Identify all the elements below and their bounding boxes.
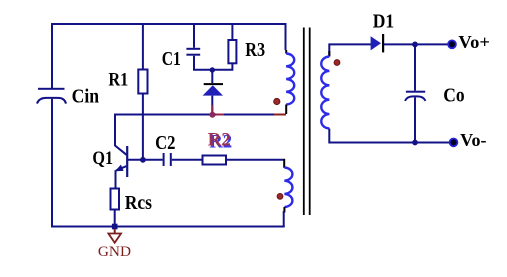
resistor R2 (203, 156, 227, 165)
diode clamp triangle (203, 85, 223, 95)
capacitor C1 (186, 48, 200, 56)
wire Co bottom lead (414, 97, 416, 142)
svg-text:Co: Co (443, 85, 464, 106)
wire base lead (128, 159, 163, 161)
wire collector drop (115, 114, 127, 155)
svg-text:Rcs: Rcs (125, 193, 153, 214)
wire R1 top lead (142, 23, 144, 69)
svg-text:R1: R1 (108, 70, 128, 91)
wire emitter lead (115, 170, 117, 187)
wire aux top stub (283, 159, 285, 168)
node Co top junction (412, 42, 418, 48)
inductor secondary winding (321, 57, 329, 129)
wire R1 bottom lead to base node (142, 95, 144, 161)
ground (108, 229, 121, 243)
wire R2 to aux winding (226, 159, 284, 161)
wire junction to diode (211, 70, 213, 83)
wire secondary top lead (329, 44, 371, 56)
diode D1 triangle (371, 36, 381, 50)
svg-text:GND: GND (98, 244, 131, 260)
wire primary bottom stub (285, 105, 287, 115)
capacitor Cin (37, 88, 66, 104)
wire Co top lead (414, 44, 416, 90)
wire aux bottom stub (283, 207, 285, 212)
node clamp junction (210, 67, 215, 72)
inductor primary winding (286, 54, 294, 105)
wire C2 to R2 (172, 159, 202, 161)
wire Cin bottom lead (51, 99, 53, 227)
resistor R1 (138, 70, 147, 94)
svg-text:C2: C2 (155, 132, 175, 154)
svg-text:R3: R3 (245, 40, 265, 61)
svg-text:Vo+: Vo+ (458, 32, 490, 52)
wire C1 bottom to junction (194, 56, 212, 70)
wire C1 top lead (193, 23, 195, 48)
svg-text:D1: D1 (373, 10, 394, 32)
wire Rcs bottom lead (114, 211, 116, 227)
svg-text:Q1: Q1 (92, 148, 113, 169)
wire left rail (51, 23, 53, 88)
capacitor Co (405, 91, 426, 101)
wire diode anode lead red part (211, 105, 213, 112)
wire R3 top lead (231, 23, 233, 39)
label R2 (208, 130, 232, 153)
terminal Vo+ (448, 40, 456, 48)
wire bottom rail (51, 226, 285, 228)
wire collector rail (mid) (115, 114, 286, 116)
node secondary polarity dot (334, 60, 340, 66)
wire aux bottom lead (283, 211, 285, 227)
node base junction (140, 157, 146, 163)
wire maroon segment right of dot (216, 114, 224, 116)
node Vo- junction (412, 140, 418, 146)
svg-text:Cin: Cin (72, 87, 100, 108)
svg-text:C1: C1 (162, 49, 181, 70)
wire R3 bottom to junction (211, 63, 232, 70)
node aux polarity dot (277, 194, 283, 200)
wire primary top lead (285, 23, 287, 50)
inductor aux winding (284, 168, 292, 208)
node primary polarity dot (274, 98, 280, 104)
diode D1 cathode bar (382, 34, 384, 52)
wire primary top stub (285, 50, 287, 54)
diode clamp cathode bar (204, 83, 223, 85)
transistor Q1 (115, 146, 128, 177)
capacitor C2 (163, 153, 172, 166)
wire D1 to Vo+ (384, 43, 450, 45)
wire secondary bottom lead (329, 129, 449, 143)
transformer core (303, 28, 311, 216)
resistor R3 (228, 40, 236, 63)
wire maroon segment near primary (274, 114, 286, 116)
svg-text:Vo-: Vo- (460, 130, 487, 150)
node ground junction (112, 224, 118, 230)
wire secondary top stub (328, 51, 330, 57)
resistor Rcs (111, 189, 120, 210)
terminal Vo- (450, 139, 458, 147)
svg-text:R2: R2 (208, 130, 231, 151)
wire top rail Vin+ (51, 23, 286, 25)
wire diode anode lead (211, 96, 213, 114)
node collector junction dot (209, 112, 215, 118)
